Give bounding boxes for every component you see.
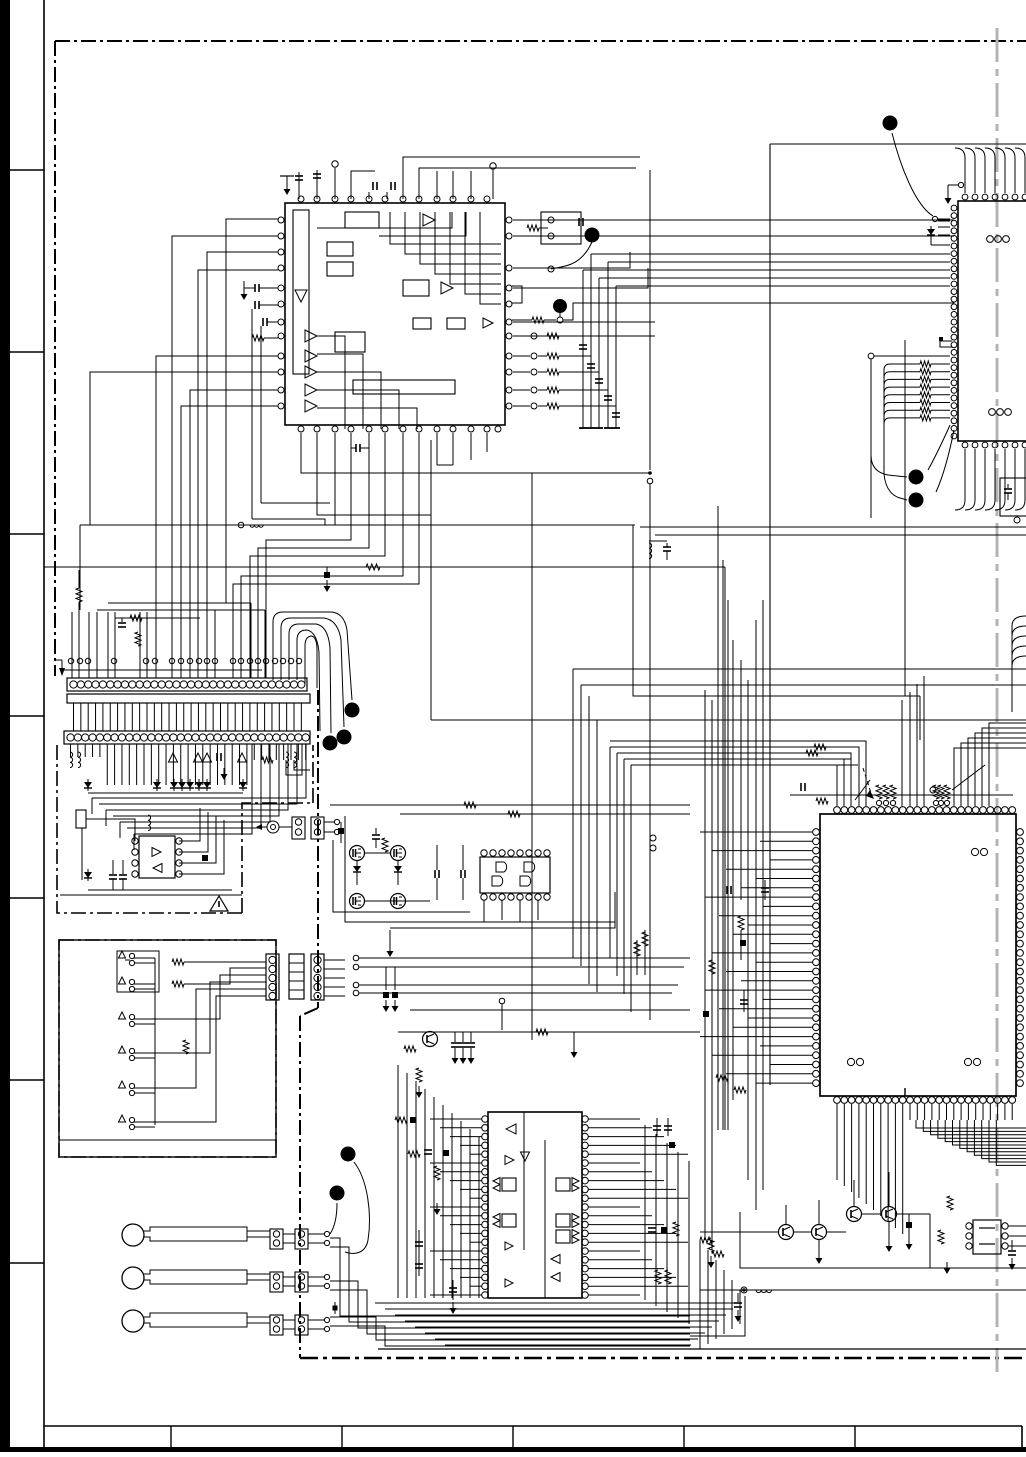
U6 bottom fan right	[916, 1120, 1026, 1128]
region box F dash-dot	[59, 940, 276, 1157]
IC U2 internal circles b	[989, 409, 996, 416]
mosfet Q2	[391, 846, 406, 861]
board outline right vertical dash-dot lower	[299, 1016, 301, 1358]
gnd mid	[223, 768, 225, 775]
I corner wire	[690, 1296, 745, 1336]
resistor RL4	[716, 1075, 728, 1081]
capacitor above U1 c	[372, 182, 374, 190]
junction circle	[932, 216, 937, 221]
wire y503	[261, 502, 330, 504]
IC U5 internal tri b	[153, 864, 162, 873]
ladder row resistor 3	[513, 371, 530, 373]
IC U3 bottom pins	[481, 894, 487, 900]
U6 top circle	[930, 787, 936, 793]
ladder row resistor 5	[513, 405, 530, 407]
vertical bus x723	[722, 560, 724, 1130]
callout dot 10	[330, 1186, 345, 1201]
IC U3 gates	[496, 862, 507, 872]
ladder top wire 1	[513, 219, 954, 221]
horizontal bus y525	[335, 433, 633, 525]
right bundle resistors	[636, 940, 638, 975]
U1 left pin wire 10	[190, 390, 278, 678]
IC U4 body	[488, 1112, 582, 1298]
region box D dash-dot	[57, 745, 242, 913]
IC U1 internal long bus rect	[353, 380, 455, 394]
IC U1 internal bus lines	[390, 212, 501, 244]
U2 bottom curve to dots	[871, 455, 907, 477]
ladder cap 2	[587, 363, 595, 365]
U1 bottom pin stubs	[436, 433, 438, 465]
frame bottom line	[44, 1425, 1022, 1427]
I wires	[700, 1231, 778, 1233]
resistor RL1	[738, 916, 744, 930]
black square in D	[202, 855, 208, 861]
ladder ground bar 5	[612, 427, 620, 429]
wire top loop	[403, 157, 640, 199]
mosfet Q1	[350, 846, 365, 861]
G bottom verticals	[699, 1240, 701, 1349]
connector CN1 pins	[70, 681, 77, 688]
callout dot 3	[883, 116, 898, 131]
callout dot 1 leader	[551, 242, 592, 269]
cap CL2	[740, 999, 748, 1001]
U4 left wire fan	[430, 1118, 482, 1120]
U6 top pin risers	[634, 765, 837, 806]
IC U1 internal buffer F	[483, 318, 493, 328]
callout dot 9	[341, 1147, 356, 1162]
vertical bus x728	[727, 600, 729, 1130]
G caps top	[454, 1032, 456, 1042]
motor M1 body	[144, 1227, 247, 1241]
connector CN4 mate	[289, 954, 304, 999]
ladder row resistor 1	[513, 335, 530, 337]
IC U5 body	[139, 836, 175, 878]
horizontal y527 pair	[640, 526, 1026, 528]
vertical bus x650	[649, 170, 651, 470]
connector CN1 body	[67, 678, 307, 691]
coil d	[294, 752, 297, 768]
U2 bottom terminal	[1014, 517, 1020, 523]
frame left column line	[43, 0, 45, 1452]
vertical bus x633	[633, 525, 920, 696]
U6 top resistor extra	[816, 798, 828, 804]
I vertical	[929, 1214, 931, 1268]
IC U1 internal staircase bus 1	[317, 212, 452, 228]
IC U2 left pins	[951, 205, 957, 211]
horizontal bus y685	[581, 684, 1026, 686]
resistor right	[262, 757, 273, 763]
diode Q1	[353, 866, 361, 872]
transistor Q5	[423, 1032, 438, 1047]
free pin row	[68, 658, 73, 663]
IC U5 left pins	[132, 838, 138, 844]
box F inner line	[59, 1139, 276, 1141]
Q5 resistor	[404, 1046, 416, 1052]
U6 pointer line a	[952, 765, 985, 790]
IC U6 inner mark	[904, 1088, 906, 1096]
wire y525 coil	[250, 525, 263, 527]
capacitor C-S1	[578, 218, 580, 226]
coil wires	[286, 744, 302, 775]
IC U1 internal rect D	[403, 280, 429, 296]
G left components	[395, 1117, 407, 1123]
left horizontals low	[108, 602, 251, 604]
transistor Q8	[847, 1207, 862, 1222]
vertical bus x748	[747, 680, 749, 1180]
wire top bus 2	[419, 168, 636, 199]
transistor Q7	[812, 1225, 827, 1240]
region E frame wires	[345, 816, 615, 922]
transistor Q6	[779, 1225, 794, 1240]
ladder ground bar 1	[579, 427, 587, 429]
cap C-E2	[462, 845, 464, 870]
box D wire mesh	[92, 744, 306, 798]
hooks right edge	[1012, 616, 1026, 700]
vertical bus x705	[704, 690, 706, 1240]
terminal circle above U1	[334, 168, 336, 199]
inductor cap node	[649, 543, 652, 559]
vertical bus x756	[755, 620, 757, 1210]
box F resistor 1	[155, 961, 170, 963]
left vertical 215	[214, 610, 216, 678]
IC U5 right pins	[176, 838, 182, 844]
connector CN3b	[311, 817, 324, 839]
open tri d	[238, 753, 247, 762]
connector CN4	[266, 954, 279, 1000]
cap C-E1	[436, 845, 438, 870]
IC U2 body	[958, 201, 1026, 441]
wire y303 from circle	[563, 303, 954, 320]
U1 left pin wire 4	[198, 270, 278, 678]
I inductor	[756, 1290, 772, 1293]
U1 left pin wire 8	[156, 356, 278, 678]
cap CL3	[726, 886, 728, 894]
U3 right terminals	[650, 835, 656, 841]
IC U1 internal buffer A	[423, 214, 435, 226]
I jack	[741, 1287, 747, 1293]
wire y519	[252, 519, 325, 525]
cap under U1	[355, 444, 357, 452]
motor M2 connector b	[295, 1272, 308, 1292]
I bus y1268	[740, 1212, 1026, 1268]
S1 terminals	[548, 217, 554, 223]
frame bottom right edge	[1021, 1426, 1023, 1452]
callout dot 9 leader	[345, 1162, 369, 1254]
IC U6 bottom pins	[834, 1097, 841, 1104]
wire top junction	[374, 171, 376, 199]
IC U1 internal rect B	[327, 242, 353, 256]
wire y525 left drop	[79, 525, 81, 610]
ladder cap 1	[579, 344, 587, 346]
open tri a	[169, 753, 178, 762]
Q risers	[785, 1205, 787, 1224]
U6 left components	[764, 880, 766, 900]
wire y525 circle	[238, 522, 244, 528]
coil c	[286, 752, 289, 768]
resistor v 138	[135, 632, 141, 646]
U4 right wire fan	[588, 1118, 640, 1120]
box F resistor 2	[172, 981, 184, 987]
connector CN3a	[292, 817, 305, 839]
motor M3 body	[144, 1313, 247, 1327]
resistor RL3	[709, 960, 715, 974]
CN5 stub wires	[324, 959, 345, 961]
diode row	[84, 782, 92, 788]
U1 left pin wire 9	[90, 372, 278, 525]
IC U4 right pins	[582, 1116, 589, 1123]
vertical bus x741	[740, 660, 742, 900]
horizontal bus y515	[317, 433, 431, 515]
terminal circle mid	[548, 266, 554, 272]
resistor R-S1	[527, 225, 539, 231]
connector S-curve wires	[273, 612, 352, 700]
I diode	[906, 1222, 912, 1228]
IC U2 internal circles a	[987, 236, 994, 243]
IC U5 internal tri a	[152, 848, 161, 857]
U4 inner vertical rails	[523, 1112, 525, 1250]
U1 left pin wire 2	[172, 236, 278, 678]
res v	[382, 838, 388, 852]
connector CN2 body	[64, 731, 310, 744]
G top gnd	[573, 1032, 575, 1046]
motor M3 connector b	[295, 1315, 308, 1335]
warning triangle	[210, 896, 228, 911]
region E lower circle	[499, 998, 505, 1004]
motor M1 wires	[247, 1230, 270, 1232]
ground arrow above U1	[286, 176, 288, 183]
IC U1 internal top rect	[345, 212, 379, 228]
motor M1 connector a	[270, 1229, 283, 1249]
diode bus	[88, 792, 243, 794]
IC U2 bottom pins	[962, 442, 968, 448]
IC U1 internal rect E	[413, 318, 431, 329]
G below bus	[375, 1302, 740, 1304]
switch box S1	[541, 212, 581, 244]
ladder ground bar 4	[604, 427, 612, 429]
U6 top components	[878, 785, 880, 806]
U6 bottom stub wires	[836, 1104, 838, 1120]
ladder ground bar 3	[595, 427, 603, 429]
U2 bottom box	[1000, 478, 1026, 516]
board outline right vertical dash-dot upper	[317, 690, 319, 1008]
IC U6 right pins	[1017, 829, 1024, 836]
IC U3 body	[480, 857, 550, 893]
vertical bus x725	[724, 567, 726, 1130]
motor M2 circle	[122, 1267, 144, 1289]
IC U1 internal buffer D	[441, 282, 453, 294]
U1 left gnd	[243, 281, 245, 288]
IC U1 internal small rect G	[335, 332, 365, 352]
diode near U2	[938, 220, 950, 222]
mid bundle vertical b	[580, 685, 582, 966]
switch stub 6	[119, 1115, 126, 1122]
IC U1 internal inverter down	[295, 290, 307, 302]
capacitor above U1 b	[316, 170, 318, 199]
box F wires to CN4	[184, 961, 266, 963]
U7 right stubs	[1008, 1225, 1026, 1227]
board outline jog	[300, 1008, 318, 1016]
box D inner bottom line	[60, 894, 242, 896]
U2 corner diagonals	[928, 425, 950, 470]
G top wire	[398, 1031, 700, 1033]
callout dot 4	[909, 470, 924, 485]
box F vertical rail	[154, 958, 156, 1125]
mid bundle vertical a	[572, 669, 574, 958]
connector CN2 pins	[67, 734, 74, 741]
long wire y525	[80, 524, 635, 526]
box D bottom bus	[88, 889, 232, 891]
IC U6 inner circles a	[971, 848, 978, 855]
jack stub wires	[279, 826, 292, 828]
frame bottom ticks	[170, 1426, 172, 1452]
board outline left dash-dot	[54, 41, 56, 676]
board outline bottom dash-dot	[300, 1357, 1026, 1359]
collector wire y670	[62, 669, 262, 671]
U1 right pin wires staircase	[513, 321, 655, 323]
IC U1 internal rect C	[327, 262, 353, 276]
region E lower caps	[385, 967, 387, 990]
IC U4 left pins	[482, 1116, 489, 1123]
diode Q2	[394, 866, 402, 872]
motor M3 connector a	[270, 1315, 283, 1335]
U6 top risers right	[954, 748, 1026, 806]
U1 left pin wire 11	[181, 406, 278, 678]
bus into U6 top	[610, 746, 837, 748]
motor M2 body	[144, 1270, 247, 1284]
switch stub 5	[119, 1081, 126, 1088]
resistor v 79	[76, 588, 82, 602]
resistor h y618	[130, 615, 142, 621]
vertical bus x712	[711, 700, 713, 1250]
wire from pin	[436, 171, 438, 199]
G res v	[416, 1068, 422, 1082]
left horiz y618	[115, 617, 200, 619]
U3 bottom pin drops	[483, 900, 485, 922]
U4 right drop verticals	[644, 1125, 646, 1300]
callout dot 3 leader	[892, 133, 933, 216]
callout dot 2	[553, 299, 567, 313]
cap sq	[338, 828, 344, 834]
vertical bus x733	[732, 640, 734, 1100]
ladder row resistor 4	[513, 389, 530, 391]
horizontal bus y567	[44, 566, 725, 568]
switch stub 4	[119, 1046, 126, 1053]
transistor Q9	[882, 1207, 897, 1222]
box D diode low	[84, 872, 92, 878]
switch stub 3	[119, 1012, 126, 1019]
IC U6 top pins	[834, 807, 841, 814]
box D comb wires	[70, 744, 72, 757]
IC U6 inner circles c	[964, 1058, 971, 1065]
U1 left cap c	[262, 318, 264, 326]
cap sym	[216, 753, 218, 761]
U2 circle row wire	[868, 353, 874, 359]
I cap gnd	[737, 1293, 739, 1302]
ladder mid wires	[513, 252, 630, 268]
switch stub 2	[119, 977, 126, 984]
U2 resistor bank	[884, 364, 890, 370]
region E lower wires	[353, 955, 359, 961]
capacitor above U1 d	[390, 182, 392, 190]
U6 pointer line b	[855, 780, 870, 800]
IC U1 left pins	[278, 217, 284, 223]
frame bottom black strip	[0, 1447, 1026, 1452]
U6 top cap	[800, 783, 802, 791]
U1 left resistor	[252, 335, 264, 341]
callout dot 2 wire	[512, 319, 532, 321]
fold line gray dash-dot	[996, 28, 999, 1372]
IC U7 left pins	[966, 1223, 972, 1229]
vertical bus x770	[769, 144, 771, 1085]
IC U6 body	[820, 814, 1016, 1096]
horizontal bus y720	[431, 719, 1026, 721]
IC U7 body	[973, 1220, 1001, 1254]
horizontal bus y473	[301, 433, 650, 473]
vertical bus x763	[762, 600, 764, 1190]
vertical bus x532	[531, 473, 533, 1040]
box F inner dashed box	[117, 951, 159, 992]
G right components	[653, 1125, 661, 1127]
motor M2 connector a	[270, 1272, 283, 1292]
pin bracket	[512, 286, 522, 303]
frame left black bar	[0, 0, 10, 1452]
U7 internal bars	[979, 1227, 995, 1229]
left drop wires	[71, 612, 73, 678]
G verticals left	[397, 1065, 399, 1298]
IC U1 internal register block	[293, 210, 309, 374]
jack J1	[267, 821, 279, 833]
resistor RL2	[734, 1087, 746, 1093]
mid bundle vertical c	[588, 696, 590, 984]
IC U3 top pins	[481, 850, 487, 856]
small rect left	[76, 810, 86, 828]
callout dot 8	[323, 736, 338, 751]
callout dot 7	[337, 730, 352, 745]
U6 left stub wires	[700, 831, 813, 833]
motor wire bundle	[330, 1238, 690, 1316]
U6 top dashed pointer	[863, 768, 872, 796]
U1 left cap a	[254, 284, 256, 292]
IC U2 top pins	[962, 194, 968, 200]
I res	[708, 1238, 714, 1252]
motor M2 wires	[247, 1273, 270, 1275]
board outline left arrow	[55, 659, 62, 661]
mosfet Q4	[391, 894, 406, 909]
U2 pin stub wires	[938, 218, 950, 220]
mosfet Q3	[350, 894, 365, 909]
IC U1 top pins	[298, 196, 304, 202]
resistor on y567	[366, 564, 380, 570]
callout dot 10 leader	[330, 1203, 337, 1234]
horizontal bus y669	[573, 668, 1026, 670]
U6 bottom fan left	[836, 1120, 838, 1180]
I bus y1290	[700, 1289, 1026, 1291]
capacitor above U1 a	[298, 172, 300, 199]
vertical bus x431	[430, 440, 432, 720]
ladder cap 5	[612, 412, 620, 414]
IC U1 internal rect F	[447, 318, 465, 329]
U2 pin corner bracket	[940, 341, 952, 347]
motor M3 circle	[122, 1310, 144, 1332]
callout dot 6	[345, 703, 360, 718]
board outline top dash-dot	[55, 40, 1026, 42]
motor M1 connector b	[295, 1229, 308, 1249]
wire y805	[330, 804, 690, 806]
connector CN5	[311, 954, 324, 1000]
region E gnd	[389, 930, 391, 945]
open tri b	[194, 753, 203, 762]
coil a	[70, 752, 73, 768]
